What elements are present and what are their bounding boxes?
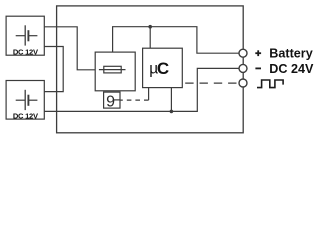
wire rail junction to uC top	[149, 27, 151, 49]
terminal circle signal	[239, 79, 247, 87]
junction dot on top rail	[148, 25, 152, 29]
square wave signal icon	[257, 80, 283, 88]
battery G1 box	[6, 16, 44, 55]
svg-text:DC 12V: DC 12V	[13, 47, 39, 56]
terminal circle minus	[239, 64, 247, 72]
microcontroller U1 box	[143, 48, 183, 87]
temperature sensor theta crossbar	[114, 99, 120, 101]
wire top rail fuse to plus terminal	[113, 27, 239, 54]
svg-text:C: C	[157, 59, 169, 78]
junction dot on bottom rail	[170, 110, 174, 114]
svg-text:DC 12V: DC 12V	[13, 111, 39, 120]
svg-text:DC 24V: DC 24V	[269, 62, 314, 76]
wire series link G1 minus to G2 plus	[44, 47, 63, 92]
battery G2 cell symbol	[16, 90, 38, 110]
fuse F1 symbol	[99, 66, 126, 73]
fuse F1 box	[95, 52, 135, 91]
minus sign	[255, 67, 261, 69]
wire uC right to signal terminal dashed	[185, 82, 239, 84]
svg-text:9: 9	[106, 93, 115, 110]
battery G1 cell symbol	[16, 25, 38, 45]
svg-text:Battery: Battery	[269, 47, 312, 61]
wire uC bottom to theta dashed	[148, 88, 150, 101]
terminal circle plus	[239, 49, 247, 57]
wire bottom rail G2 minus to riser	[44, 68, 239, 111]
wire rail junction to uC bottom	[170, 88, 172, 112]
temperature sensor box	[104, 92, 120, 108]
battery G2 box	[6, 81, 44, 120]
plus sign	[255, 50, 261, 56]
device enclosure outer box	[57, 6, 244, 133]
wire battery G1 plus to fuse	[44, 27, 95, 70]
